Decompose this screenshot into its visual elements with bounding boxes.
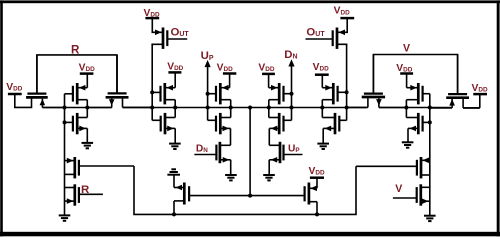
transistor M6 (cascode left upper) [152, 72, 175, 107]
transistor M18 (charge FET mid right-of-center) [269, 108, 292, 146]
inverted ground above M11 [167, 169, 180, 174]
label V (bottom) [395, 183, 402, 195]
VDD supply above M22 [396, 63, 413, 74]
node DN line / rail [290, 106, 294, 110]
node OUT line / rail [150, 106, 154, 110]
wire net DN with arrow [288, 59, 294, 120]
transistor M23 (right mirror bottom) [406, 108, 429, 143]
ground below M26 [424, 216, 436, 221]
node M2/M3 drain on rail [85, 106, 89, 110]
transistor M20 (mirror bias center-right) [250, 178, 317, 215]
ground below M3 [82, 143, 94, 148]
svg-text:V: V [403, 43, 410, 55]
label DN (top) [284, 49, 297, 61]
label OUT (left) [171, 27, 190, 39]
transistor M22 (right mirror top) [406, 74, 429, 108]
node M17 gate on DN line [290, 92, 294, 96]
label V (top) [403, 43, 410, 55]
ground below M16 [317, 144, 329, 149]
transistor M16 (cascode right lower) [322, 108, 346, 144]
label DN (gate stub left) [196, 144, 208, 155]
transistor M21 (right pass FET left, gate V) [347, 55, 407, 108]
svg-text:V: V [395, 183, 402, 195]
transistor M7 (cascode left lower) [152, 108, 175, 144]
node M8 gate on UP line [206, 92, 210, 96]
label OUT (right) [306, 26, 325, 38]
label R (bottom) [81, 184, 89, 196]
transistor M14 (output driver right) [306, 18, 348, 49]
wire M5 drain vertical [151, 44, 153, 120]
wire center vertical [249, 108, 251, 196]
VDD supply above M8 [217, 62, 237, 73]
transistor M4 (left pass FET right, gate R) [87, 55, 152, 108]
wire left gate-rail [64, 94, 66, 216]
transistor M19 (UP switch right) [269, 142, 302, 175]
node center vertical on rail [248, 106, 252, 110]
node OUT-right line / rail [345, 106, 349, 110]
VDD supply above M17 [258, 62, 275, 74]
transistor M2 (left mirror top) [65, 74, 88, 108]
wire right gate-rail [429, 94, 431, 216]
node M6/M7 drain on rail [173, 106, 177, 110]
transistor M24 (right pass FET edge, gate V) [430, 55, 480, 108]
node M15 gate on OUT line [345, 90, 349, 94]
VDD supply above M15 [313, 62, 329, 75]
svg-text:R: R [71, 43, 80, 56]
ground below M10 [225, 175, 237, 180]
transistor M1 (left pass FET, gate R) [26, 55, 64, 108]
ground below M13 [59, 215, 71, 220]
transistor M5 (output driver left) [152, 18, 187, 49]
transistor M26 (V switch bottom-right) [393, 184, 430, 205]
node M20 source on bottom rail [315, 212, 319, 216]
node M17/M18 drain on rail [267, 106, 271, 110]
transistor M9 (charge FET mid left-of-center) [208, 108, 231, 146]
node M22/M23 drain on rail [404, 106, 408, 110]
wire bottom gate loop (M12/M25 gates) [134, 166, 356, 214]
node M11 source on bottom rail [172, 212, 176, 216]
ground below M23 [402, 142, 414, 147]
wire VDD rail [42, 106, 479, 109]
wire M14 drain vertical [346, 44, 348, 120]
VDD supply above M2 [79, 63, 95, 74]
transistor M3 (left mirror bottom) [65, 108, 88, 143]
VDD supply above M20 [309, 166, 325, 178]
label UP (gate stub right) [288, 144, 300, 155]
transistor M11 (mirror bias center-left) [174, 175, 250, 215]
wire net UP with arrow [205, 60, 211, 120]
ground below M7 [169, 144, 181, 149]
node UP line / rail [206, 106, 210, 110]
transistor M13 (R switch bottom-left) [65, 184, 103, 205]
VDD supply right edge [472, 83, 488, 108]
node M3 gate junction [63, 120, 67, 124]
label R (top) [71, 43, 80, 56]
node M22 gate / rail junction [428, 106, 432, 110]
wire net R top loop [37, 55, 117, 94]
node M8/M9 drain on rail [229, 106, 233, 110]
transistor M12 (bias FET bottom-left upper) [65, 157, 135, 178]
VDD supply above M14 [334, 6, 355, 18]
transistor M10 (DN switch left) [194, 142, 230, 175]
VDD supply above M5 [144, 8, 160, 19]
node center tail junction [248, 194, 252, 198]
transistor M25 (bias FET bottom-right upper) [356, 157, 430, 178]
transistor M17 (charge FET upper right-of-center) [269, 74, 292, 108]
transistor M15 (cascode right upper) [322, 75, 346, 108]
node M15/M16 drain on rail [320, 106, 324, 110]
svg-text:R: R [81, 184, 89, 196]
VDD supply left edge [6, 82, 31, 108]
transistor M8 (charge FET upper left-of-center) [208, 74, 231, 108]
VDD supply above M6 [167, 61, 183, 72]
wire net V top loop [373, 55, 457, 95]
node M6 gate on OUT line [150, 90, 154, 94]
label UP (top) [201, 50, 214, 62]
node M23 gate junction [428, 120, 432, 124]
node M2 gate / rail junction [63, 106, 67, 110]
ground below M19 [263, 175, 275, 180]
